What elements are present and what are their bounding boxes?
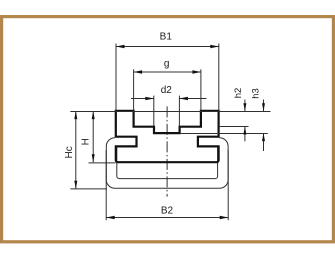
extension line slot-bottom right <box>180 133 268 135</box>
svg-text:h3: h3 <box>251 88 262 99</box>
svg-text:B1: B1 <box>160 31 173 42</box>
guide profile outline (thick) <box>116 111 219 162</box>
dimension line B2 <box>106 217 228 219</box>
extension line channel-bottom left <box>70 188 107 190</box>
extension line g right <box>200 69 202 110</box>
extension line d2 left <box>153 96 155 127</box>
extension line B1 right <box>218 44 220 111</box>
extension line B2 right <box>227 150 229 220</box>
steel C-channel inner contour (thin) <box>117 147 218 179</box>
extension line B1 left <box>115 44 117 111</box>
dimension line h3 <box>263 100 265 112</box>
dimension line h2 <box>244 100 246 112</box>
svg-text:g: g <box>164 58 170 69</box>
dimension line H <box>92 111 94 162</box>
extension line g left <box>133 69 135 110</box>
steel C-channel outer contour (thin) <box>106 138 228 189</box>
svg-text:H: H <box>81 138 92 145</box>
dimension line d2 (arrows outside) <box>131 98 154 100</box>
dimension line B1 <box>116 46 219 48</box>
extension line slab-bottom left <box>89 162 116 164</box>
dimension line Hc <box>75 111 77 189</box>
vertical centerline <box>166 106 168 196</box>
extension line channel-floor right <box>219 126 249 128</box>
extension line d2 right <box>178 96 180 127</box>
svg-text:d2: d2 <box>161 85 173 96</box>
dimension line g <box>134 71 201 73</box>
svg-text:B2: B2 <box>161 206 174 217</box>
svg-text:h2: h2 <box>233 88 244 99</box>
extension line B2 left <box>105 150 107 220</box>
svg-text:Hc: Hc <box>64 146 75 158</box>
rail-top reference line (continuous across channel) <box>70 111 270 113</box>
